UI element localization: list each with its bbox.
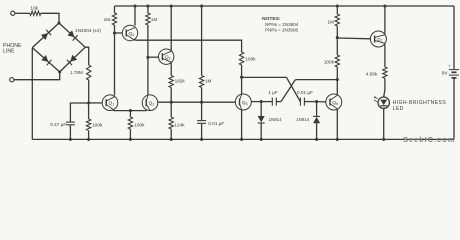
note NPN/PNP types	[262, 16, 299, 32]
svg-text:1 µF: 1 µF	[268, 90, 278, 95]
junction LED ground	[382, 138, 385, 141]
capacitor C2 0.01uF	[197, 102, 224, 139]
svg-text:HIGH-BRIGHTNESS: HIGH-BRIGHTNESS	[393, 100, 447, 106]
diode D5 1N914	[258, 102, 282, 140]
junction Q5 collector node	[240, 76, 243, 79]
wire Q6 collector	[336, 80, 338, 95]
wire Q3 emitter to R7	[170, 63, 172, 76]
wire D6 node to Q6 base	[317, 101, 326, 103]
svg-text:100k: 100k	[92, 122, 103, 127]
resistor R11 1M (Q7 base pull-up)	[327, 6, 339, 38]
wire Q5 emitter to ground	[241, 110, 243, 139]
resistor R7 182k	[169, 76, 185, 88]
diode D4 (bridge bottom-right)	[67, 55, 77, 65]
svg-text:1.78M: 1.78M	[70, 70, 83, 75]
svg-text:+: +	[448, 63, 451, 68]
junction Q3 collector rail	[170, 4, 173, 7]
svg-text:100k: 100k	[245, 57, 256, 62]
resistor R3 100k	[86, 103, 103, 139]
junction Q4 collector rail	[133, 4, 136, 7]
svg-text:182k: 182k	[175, 78, 186, 83]
svg-text:0.01 µF: 0.01 µF	[297, 90, 313, 95]
junction bridge bottom node	[58, 70, 61, 73]
wire Q6 collector coupling horizontal	[295, 79, 337, 81]
capacitor C1 0.47uF	[50, 122, 75, 127]
junction bridge top node	[57, 21, 60, 24]
wire C1 to ground	[69, 125, 71, 140]
wire Q1 collector vertical	[114, 33, 116, 95]
junction 1M mid rail	[200, 4, 203, 7]
resistor R6 1M (Q2 collector load)	[146, 6, 158, 25]
wire Q6 emitter to ground	[336, 110, 338, 140]
transistor Q1	[102, 95, 118, 111]
transistor Q3	[159, 49, 174, 64]
wire Q7 base	[337, 37, 370, 40]
svg-text:PNPs = 2N3906: PNPs = 2N3906	[265, 27, 299, 32]
junction node line at R9/C2	[200, 101, 203, 104]
resistor R13 4.99k	[366, 67, 387, 78]
wire bridge edge bottom-left	[32, 48, 59, 72]
wire 1M mid vertical	[201, 6, 203, 76]
wire Q3 collector to rail	[170, 6, 172, 51]
diode D3 (bridge bottom-left)	[41, 55, 51, 65]
wire top supply rail	[115, 5, 455, 7]
junction R6 rail	[146, 4, 149, 7]
transistor Q5	[235, 94, 251, 110]
junction emitter link node	[129, 109, 132, 112]
junction D6 ground	[315, 138, 318, 141]
junction Q5 emitter ground	[240, 138, 243, 141]
wire J2 to bridge bottom	[14, 72, 60, 80]
junction C2 ground	[200, 138, 203, 141]
transistor Q6	[326, 94, 342, 110]
junction Q3 base node	[146, 56, 149, 59]
junction D5 node	[260, 100, 263, 103]
junction Q4 base node	[113, 31, 116, 34]
node A (Q1 base node)	[87, 101, 90, 104]
resistor R4 1M (Q1 collector load)	[104, 6, 117, 33]
wire Q7 collector to rail	[384, 6, 386, 34]
resistor R2 1.78M	[70, 65, 91, 80]
svg-text:9V: 9V	[442, 70, 449, 76]
wire R7 to node line	[170, 88, 172, 103]
wire R2 to node A	[88, 80, 90, 103]
watermark SeekIC.com	[403, 135, 455, 144]
junction D5 ground	[260, 138, 263, 141]
junction R3 ground	[87, 138, 90, 141]
svg-text:1M: 1M	[104, 17, 111, 22]
wire bridge edge top-right	[59, 23, 85, 47]
junction Q6 collector node	[336, 78, 339, 81]
diode D1 (bridge top-left)	[41, 30, 51, 40]
junction D6 node	[315, 100, 318, 103]
wire interstage node line	[158, 101, 235, 103]
wire node A to C1 branch	[70, 103, 88, 122]
resistor R12 100k	[324, 38, 340, 80]
wire R13 to LED	[384, 78, 385, 97]
svg-text:10k: 10k	[30, 5, 38, 11]
transistor Q7	[370, 31, 386, 47]
wire right rail upper	[453, 6, 455, 69]
svg-text:1M: 1M	[205, 78, 212, 83]
label C3 1uF	[268, 90, 278, 95]
terminal J1 (phone line tip)	[11, 11, 15, 15]
wire bridge right corner to R2	[85, 47, 89, 65]
svg-text:100k: 100k	[134, 122, 145, 127]
label 1N4004 (x4)	[75, 28, 101, 33]
svg-text:4.99k: 4.99k	[366, 72, 378, 77]
svg-text:LED: LED	[393, 106, 404, 112]
wire coupling diagonal left-to-right	[287, 77, 301, 101]
wire R1 to bridge top	[41, 13, 59, 23]
resistor R9 1M (node pull-up)	[199, 76, 211, 103]
svg-text:1N914: 1N914	[269, 117, 282, 122]
wire bridge left corner to ground rail	[31, 48, 33, 140]
transistor Q4	[122, 25, 137, 40]
svg-text:SeekIC.com: SeekIC.com	[403, 135, 455, 144]
resistor R10 100k (Q5 collector load)	[239, 52, 256, 94]
resistor R8 124k	[169, 102, 185, 139]
wire Q7 emitter	[384, 45, 386, 68]
wire coupling diagonal right-to-left	[281, 80, 295, 102]
resistor R1 10k	[30, 5, 41, 15]
wire Q1-Q2 emitter link	[113, 110, 147, 112]
label C4 0.01uF	[297, 90, 313, 95]
terminal J2 (phone line ring)	[10, 78, 14, 82]
svg-text:1N4004 (x4): 1N4004 (x4)	[75, 28, 101, 33]
diode D2 (bridge top-right)	[67, 30, 77, 40]
svg-text:100k: 100k	[324, 60, 335, 65]
junction node line at R7/R8	[170, 101, 173, 104]
wire LED to ground	[383, 108, 385, 139]
svg-text:1M: 1M	[327, 20, 334, 25]
junction C1 ground	[69, 138, 72, 141]
junction 1M right rail	[336, 4, 339, 7]
wire bridge edge top-left	[32, 23, 59, 48]
junction R5 ground	[129, 138, 132, 141]
svg-text:1M: 1M	[151, 17, 158, 22]
battery B1 9V	[442, 63, 459, 78]
wire node A to Q1 base	[89, 102, 103, 104]
label HIGH-BRIGHTNESS LED	[393, 100, 447, 112]
junction Q6 emitter ground	[336, 138, 339, 141]
svg-text:0.01 µF: 0.01 µF	[208, 121, 224, 126]
resistor R5 100k (emitter)	[128, 111, 145, 140]
transistor Q2	[142, 95, 158, 111]
wire Q4 base	[115, 32, 123, 34]
wire J1 to R1	[15, 12, 30, 14]
diode D6 1N914	[296, 102, 320, 140]
wire Q5 to D5 node	[251, 101, 261, 103]
wire right rail lower	[453, 78, 455, 139]
wire bottom ground rail	[32, 138, 454, 140]
capacitor C3 1uF	[261, 98, 281, 106]
svg-text:LINE: LINE	[3, 49, 15, 55]
wire Q3 base	[148, 56, 159, 58]
junction R8 ground	[170, 138, 173, 141]
wire Q4 collector to rail	[134, 6, 136, 26]
wire Q2 collector vertical	[147, 25, 149, 95]
LED DS1 high-brightness	[374, 96, 390, 108]
label PHONE LINE	[3, 43, 22, 55]
svg-text:0.47 µF: 0.47 µF	[50, 122, 66, 127]
svg-text:124k: 124k	[174, 122, 185, 127]
wire Q5 collector coupling horizontal	[242, 76, 287, 78]
wire Q4 emitter line	[134, 40, 242, 52]
svg-text:NPNs = 2N3904: NPNs = 2N3904	[265, 22, 299, 27]
capacitor C4 0.01uF	[300, 98, 316, 106]
junction Q7 base node	[336, 36, 339, 39]
svg-text:1N914: 1N914	[296, 117, 309, 122]
junction Q7 collector rail	[383, 4, 386, 7]
wire bridge edge bottom-right	[60, 47, 85, 72]
